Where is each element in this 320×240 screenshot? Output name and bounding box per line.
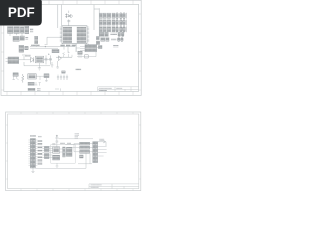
- net label text above bus: [31, 44, 40, 46]
- wire vertical net right of U1 from top border: [94, 5, 99, 30]
- resistor R3 vertical zigzag: [22, 74, 24, 83]
- op U1 main microcontroller with pin name columns: [62, 26, 87, 44]
- resistor row R10 with value text: [101, 38, 123, 42]
- resistor network rows RN1 RN2 RN3 with capacitor pairs (top right): [99, 13, 126, 32]
- U1 left pin stubs: [60, 27, 62, 42]
- ground symbol under U5 area: [31, 163, 58, 173]
- connector J5 header block: [93, 142, 107, 163]
- ground flag under regulator: [38, 66, 41, 70]
- wire vertical net left of U1 from top border: [58, 5, 62, 28]
- inductor L1 vertical block (left of bus): [19, 45, 28, 52]
- resistor R22 tall and R23 block right of U5: [63, 147, 72, 157]
- power flag cross above C20: [56, 135, 58, 137]
- wire U3 to C5: [36, 76, 44, 80]
- connector J1 header block (below badge): [8, 27, 13, 34]
- capacitor C1 C2 electrolytic with plus marks: [45, 53, 52, 64]
- ESD protection U4 block under bus: [52, 49, 59, 52]
- series resistor packs to connector J5: [80, 142, 90, 153]
- title block page 2: [89, 184, 139, 189]
- page 1 sheet border frame with grid reference ticks: [1, 0, 141, 95]
- diode D1 series protection: [31, 57, 34, 62]
- capacitor stack C20 with supply arrow above U5: [52, 136, 58, 146]
- net label texts above P1: [30, 135, 42, 137]
- op U3 secondary regulator: [28, 74, 36, 79]
- U1 designator and net labels below: [60, 44, 88, 52]
- small cluster near bottom border: [28, 88, 61, 91]
- svg-text:PDF: PDF: [8, 5, 35, 20]
- ground symbols under diode row: [51, 61, 59, 68]
- crystal Y1 oscillator sub-circuit above U1: [65, 11, 72, 26]
- capacitor C5 block with marks: [44, 74, 49, 82]
- tiny ref text upper right of P1 circuit: [75, 134, 79, 139]
- diode D2 with indicator wiring: [56, 52, 72, 61]
- connector J3 DC power jack: [6, 57, 19, 64]
- resistor network row RN4 with net label text: [100, 32, 124, 36]
- wires resistor rows to J5 and bottom bus: [74, 144, 93, 164]
- op U5 interface transceiver: [53, 147, 60, 160]
- wire horizontal runs upper page 2: [59, 139, 93, 152]
- net label box bottom row: [28, 82, 41, 86]
- wire from J2 down: [21, 34, 23, 37]
- wire bus feeding RN rows: [98, 8, 100, 36]
- group boundary box around U5 cluster: [51, 145, 75, 164]
- resistor pair RN5 vertical ladder: [35, 36, 38, 44]
- capacitor C12 pair at right mid with label: [96, 36, 118, 48]
- net label text right of J2: [30, 28, 33, 32]
- capacitor C9 box mid low: [62, 71, 66, 73]
- resistor R24 small box under series rows: [80, 155, 84, 158]
- tiny ref text right of cap bank: [76, 68, 82, 70]
- PDF file type badge: [0, 0, 42, 26]
- connector J2 header block: [14, 27, 20, 34]
- switch S1 cluster lower left: [12, 73, 18, 80]
- junction node dot: [45, 46, 46, 47]
- wire long run right to C12 cluster: [77, 50, 96, 57]
- wire regulator output rail: [24, 59, 52, 65]
- wire ladder to bus junction: [30, 37, 75, 48]
- regulator U2 with label: [35, 56, 43, 63]
- page 2 sheet border frame with grid reference ticks: [6, 112, 141, 191]
- value annotation row above U5: [60, 143, 71, 145]
- standalone box flag right: [85, 55, 89, 58]
- capacitor bank C10-C13 to ground: [57, 75, 68, 80]
- U1 right pin stubs: [87, 27, 89, 42]
- wires fan out from P1 to U5: [42, 147, 66, 158]
- wire jack to diode: [19, 55, 31, 60]
- label D9 text above regulator: [25, 55, 31, 57]
- net label column beside P1: [38, 140, 43, 165]
- title block page 1: [98, 87, 139, 92]
- resistor pack R20 R21 (page 2): [44, 146, 49, 158]
- wire bottom return run page 2: [35, 164, 86, 169]
- oscillator X1 block row 2: [13, 36, 28, 41]
- connector P1 parallel port pin column: [28, 139, 37, 169]
- capacitor C8 block: [25, 26, 29, 33]
- header J4 block centre right: [76, 44, 100, 52]
- resistor R1 block: [20, 27, 23, 33]
- net label wire with arrow near J5 top: [98, 139, 106, 146]
- wire stub down from J1 J2 blocks: [10, 33, 17, 36]
- small box P3 right of diode row: [78, 51, 82, 58]
